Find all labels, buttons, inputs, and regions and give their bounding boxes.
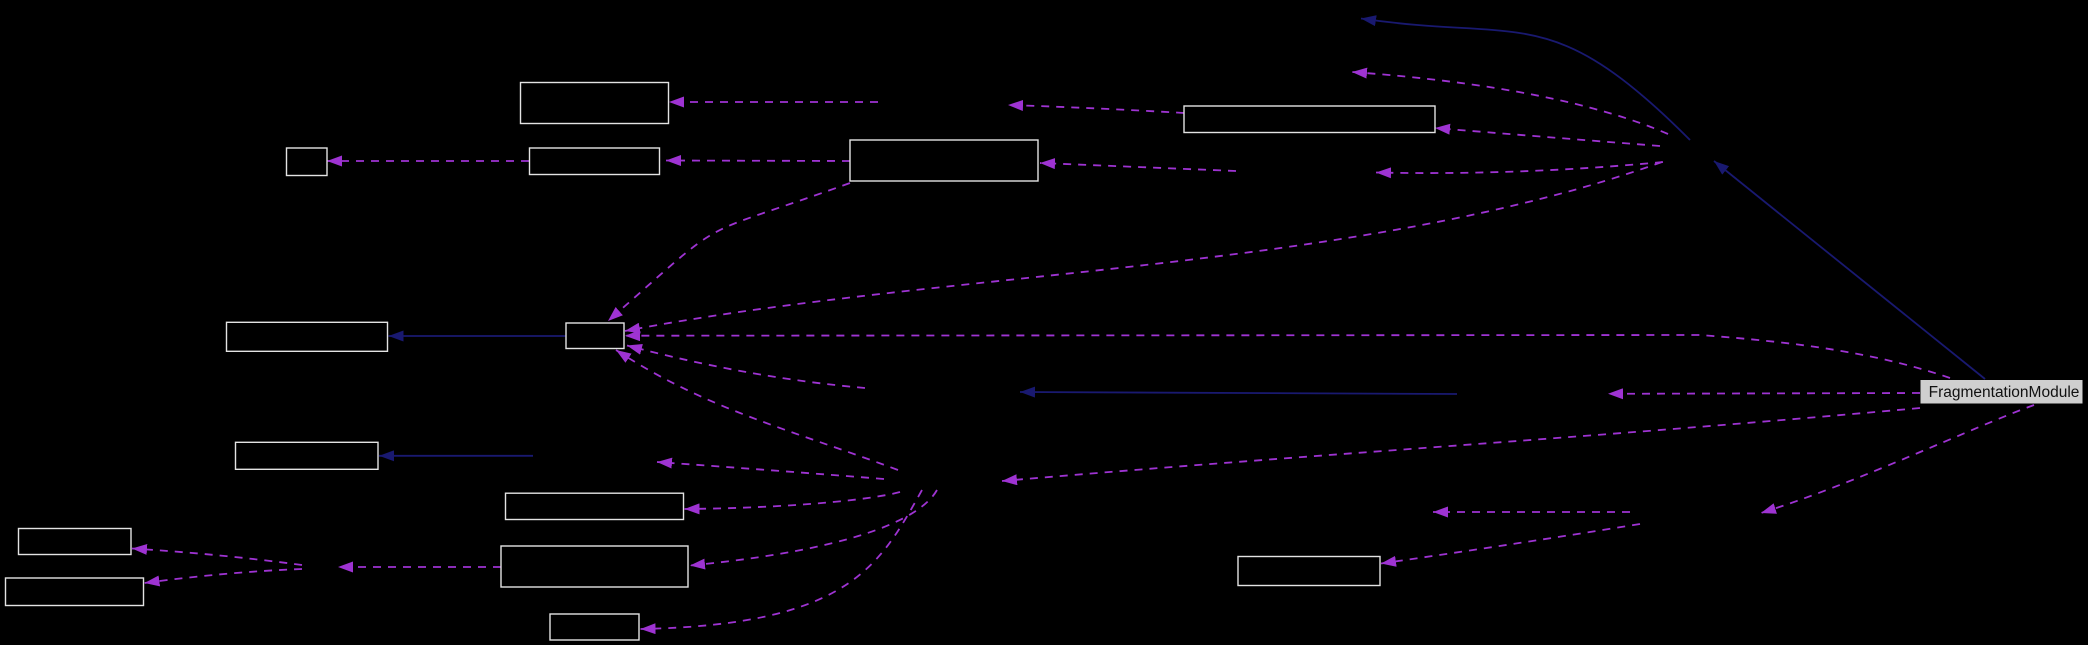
wire blue edge B7 to B6 [389,335,567,337]
wire dashed edge IN1 to B1 [669,101,878,103]
node B8 [236,442,379,469]
node B13 [550,614,639,640]
node FragmentationModule [1921,380,2083,404]
node B7 [566,323,624,349]
wire dashed edge B4 to B7 [608,183,850,321]
node B12 [501,546,688,587]
node B4 [850,140,1038,181]
node B3 [530,148,660,175]
wire dashed edge IN2b to B4 [1040,163,1236,171]
wire dashed edge IN8 to IN9 [1433,511,1630,513]
node B14 [1238,557,1380,586]
wire dashed edge IN10 to B10 [132,549,302,566]
wire dashed edge B15 to IN8 [1761,405,2034,513]
node B2 [287,148,328,176]
wire dashed edge IN5 to B12 [690,490,937,566]
wire dashed edge IN10 to B11 [145,569,303,583]
wire dashed edge B5 to IN1 [1008,105,1184,113]
node B5 [1184,106,1435,133]
node B6 [227,322,388,351]
wire dashed edge IN5 to IN4 [657,462,884,479]
wire dashed edge B3 to B2 [327,160,529,162]
wire blue edge IN4 to B8 [379,455,533,457]
wire dashed edge B15 to B7 long horizontal [625,335,1950,378]
wire dashed edge IN5 to B13 [641,490,923,629]
wire dashed edge IN3 to node A [1352,72,1668,134]
wire blue edge B15 to IN3 [1714,161,1985,379]
wire dashed edge B15 to IN6 [1608,392,1920,395]
wire dashed edge IN5 to B7 [616,350,898,470]
wire dashed edge IN8 to B14 [1381,524,1640,564]
node B1 [521,83,669,124]
node B10 [19,529,132,555]
wire dashed edge IN3 to B5 [1435,128,1660,146]
wire dashed edge IN3 to IN2b [1376,162,1663,173]
wire dashed edge IN7 to B7 [627,346,865,389]
wire dashed edge B4 to B3 [666,160,850,163]
wire dashed edge B15 to IN5 [1002,408,1920,481]
wire blue edge IN3 to top-left arrow [1361,19,1690,141]
wire dashed edge IN5 to B9 [685,492,901,509]
wire dashed edge IN3 to B7 curve [625,162,1662,331]
node B11 [6,578,144,606]
wire blue edge IN6 to IN7 [1020,392,1457,394]
svg-text:FragmentationModule: FragmentationModule [1929,384,2080,401]
wire dashed edge B12 to IN10 [338,566,501,568]
node B9 [506,493,684,519]
